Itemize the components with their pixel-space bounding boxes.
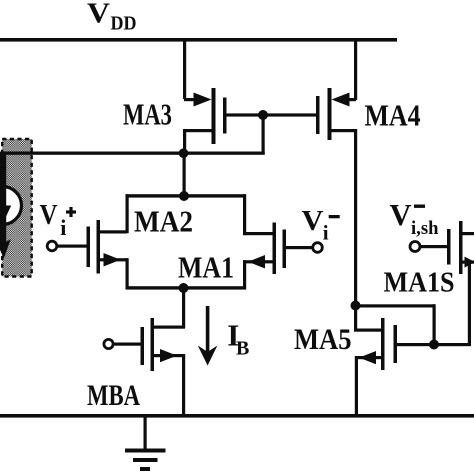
wire: MA1 source down to tail rail [243,260,246,289]
wire: V_i,sh- to MA1S gate [420,245,447,248]
wire: drain rail to MA1 drain [243,194,246,235]
svg-text:MA4: MA4 [365,98,421,133]
ground rail [0,414,474,418]
transistor MA3 [183,88,227,144]
terminal circle Vi- [313,243,323,253]
transistor MA1 [243,223,286,275]
VDD power rail [0,38,397,42]
terminal circle V_i,sh- [410,242,420,252]
current source branch [0,152,22,259]
svg-text:DD: DD [111,13,137,35]
junction dot: tail node [179,283,189,293]
current arrow IB [198,306,218,366]
label V_i,sh- [390,197,439,239]
ground symbol [125,417,166,471]
transistor MA1S [447,221,474,274]
wire: mirror node down to diff pair [183,153,186,196]
wire: MBA source down to ground rail [182,354,185,416]
wire: tail node down to MBA drain [182,288,185,328]
transistor MBA [141,318,186,371]
wire: drain rail to MA2 drain [126,194,129,233]
wire: Vi+ to MA2 gate [58,245,87,248]
svg-text:V: V [87,0,110,30]
wire: MA2 source down to tail rail [126,258,129,289]
wire: MA4 drain down to output node [354,129,357,307]
wire: tail rail [126,286,247,289]
svg-text:V: V [302,205,324,237]
junction dot: MA3 drain on mirror wire [179,148,189,158]
wire: mirror node horizontal [0,152,265,155]
svg-text:MA1S: MA1S [384,267,455,299]
wire: output node down to MA5 drain [354,305,357,332]
wire: MA5 gate lead [397,343,433,346]
label Vi+ [40,199,77,240]
wire: MA5 gate net to right edge [433,343,471,346]
wire: branch vertical down to MA5 gate net [433,304,436,346]
junction dot: MA5 gate net [429,340,439,350]
svg-text:i: i [60,215,66,240]
junction dot: diff pair drain rail [179,191,189,201]
wire: MA5 source down to ground rail [355,356,358,416]
junction dot: output node [351,301,361,311]
svg-text:V: V [40,199,58,231]
wire: MA3 drain down [183,129,186,155]
svg-text:MA2: MA2 [134,204,193,239]
terminal circle Vi+ [47,241,57,251]
wire: VDD to MA3 source [183,38,186,99]
svg-text:V: V [390,197,413,232]
svg-text:MA3: MA3 [123,97,172,132]
label Vi- [302,205,340,245]
svg-text:MA1: MA1 [178,250,234,285]
wire: VDD to MA4 source [354,38,357,100]
svg-text:i: i [323,221,329,245]
transistor MA2 [87,220,129,274]
wire: MA1 gate to Vi- [286,246,312,249]
svg-text:MBA: MBA [87,379,140,412]
transistor MA5 [354,318,397,370]
wire: MBA gate lead [113,343,141,346]
wire: output node to MA1S branch horizontal [354,304,436,307]
wire: diff pair drain rail [126,194,247,197]
wire: gate net vertical to mirror wire [262,115,265,155]
svg-text:MA5: MA5 [294,323,352,356]
junction dot: gate net [258,110,268,120]
svg-text:i,sh: i,sh [411,218,439,239]
wire: right edge vertical to MA1S source [468,261,471,347]
transistor MA4 [316,88,357,140]
svg-text:B: B [236,338,249,360]
wire: gate net MA3 to MA4 [227,113,317,116]
input current source box (dashed, stippled) [2,139,32,277]
terminal circle MBA gate [104,339,113,348]
